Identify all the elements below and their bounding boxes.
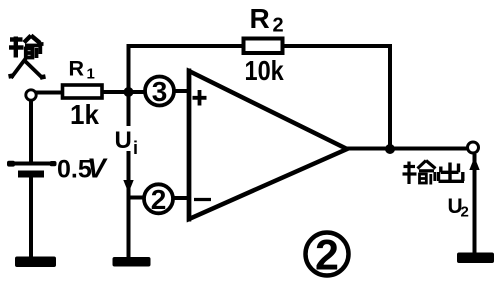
svg-text:R: R [250, 3, 270, 34]
svg-text:2: 2 [461, 204, 469, 221]
svg-text:V: V [87, 153, 108, 184]
svg-text:2: 2 [151, 184, 167, 215]
svg-text:2: 2 [273, 15, 284, 37]
svg-text:3: 3 [152, 76, 168, 107]
svg-text:2: 2 [315, 232, 339, 280]
svg-text:i: i [133, 138, 138, 158]
svg-text:1: 1 [87, 66, 95, 83]
svg-text:R: R [69, 57, 85, 81]
svg-text:10k: 10k [245, 56, 285, 86]
svg-text:U: U [115, 127, 132, 154]
svg-text:1k: 1k [70, 99, 100, 130]
